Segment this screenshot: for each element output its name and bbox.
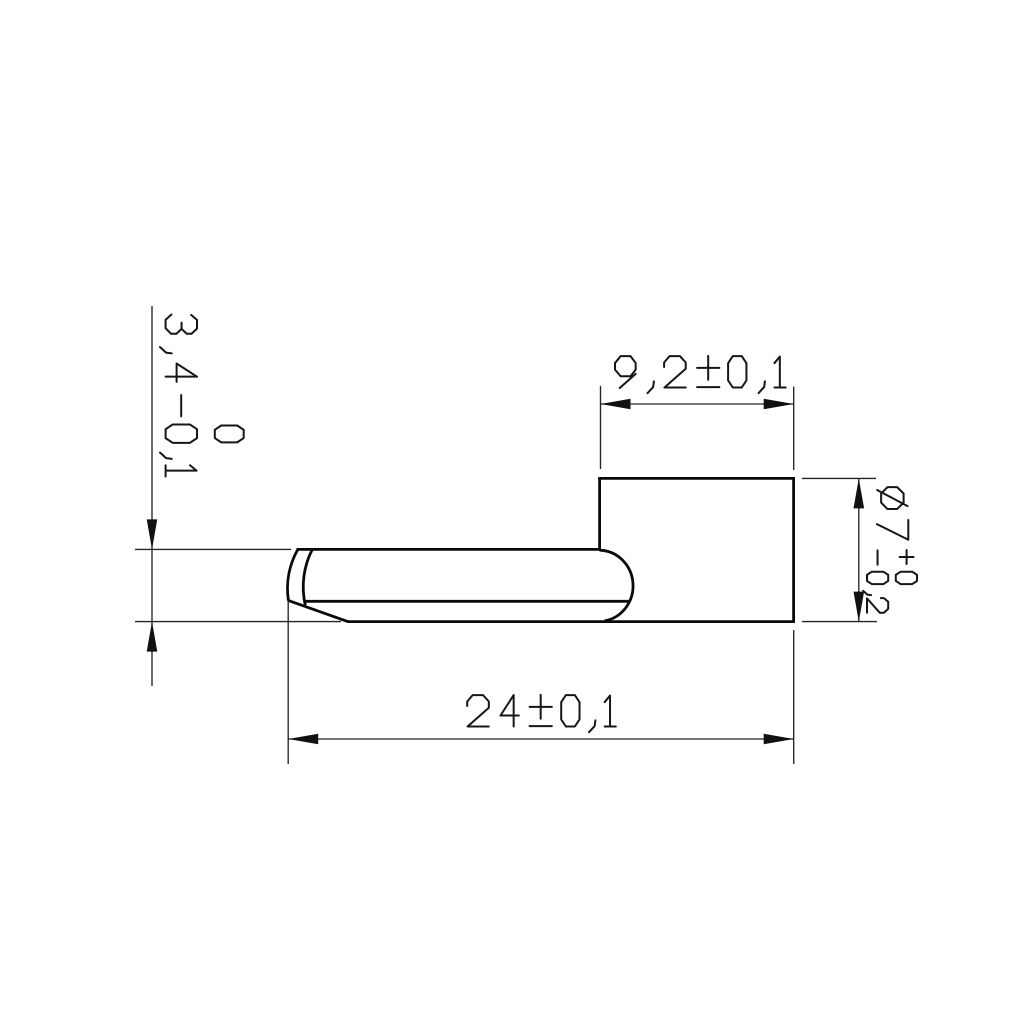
dim 3,4 arrow down	[147, 519, 158, 549]
boss top edge	[598, 477, 793, 480]
dim 3,4 dimension line	[151, 306, 153, 686]
dim Ø7 arrow down	[854, 592, 865, 622]
dim 9,2 extension line right	[793, 387, 795, 471]
dim 24 arrow left	[288, 734, 318, 745]
dim Ø7 extension line top	[802, 477, 876, 479]
dim Ø7 text 'Ø7' rotated	[877, 487, 908, 540]
bar right end arc	[600, 550, 633, 621]
dim 9,2 text '9,2±0,1'	[615, 356, 786, 393]
dim 3,4 extension line bottom	[135, 621, 341, 623]
dim 24 extension line left	[287, 601, 289, 765]
dim 3,4 text '3,4-0,1' rotated	[160, 315, 197, 477]
dim Ø7 arrow up	[854, 478, 865, 508]
dim 24 extension line right	[793, 630, 795, 764]
part bottom edge	[348, 620, 795, 623]
part top edge (bar silhouette top)	[297, 548, 600, 551]
dim 3,4 extension line top	[135, 548, 291, 550]
dim 3,4 arrow up	[147, 622, 158, 652]
dim 9,2 arrow left	[601, 399, 631, 410]
dim 24 dimension line	[288, 738, 794, 740]
bar left chamfer diagonal	[288, 600, 348, 621]
boss right edge	[792, 477, 795, 622]
dim 9,2 arrow right	[764, 399, 794, 410]
bar left end outer arc	[288, 549, 298, 600]
dim 9,2 extension line left	[600, 386, 602, 469]
dim Ø7 dimension line	[858, 478, 860, 621]
dim Ø7 tolerance '+0' rotated	[896, 550, 917, 584]
dim 9,2 dimension line	[601, 403, 794, 405]
dim Ø7 tolerance '-0,2' rotated	[863, 550, 888, 612]
dim Ø7 extension line bottom	[802, 621, 877, 623]
dim 24 text '24±0,1'	[467, 695, 616, 732]
dim 24 arrow right	[764, 734, 794, 745]
boss left edge	[598, 478, 601, 550]
bar tangent line (flat face edge)	[305, 600, 629, 603]
dim 3,4 superscript '0' rotated	[215, 426, 244, 443]
bar left end inner arc	[303, 549, 312, 605]
